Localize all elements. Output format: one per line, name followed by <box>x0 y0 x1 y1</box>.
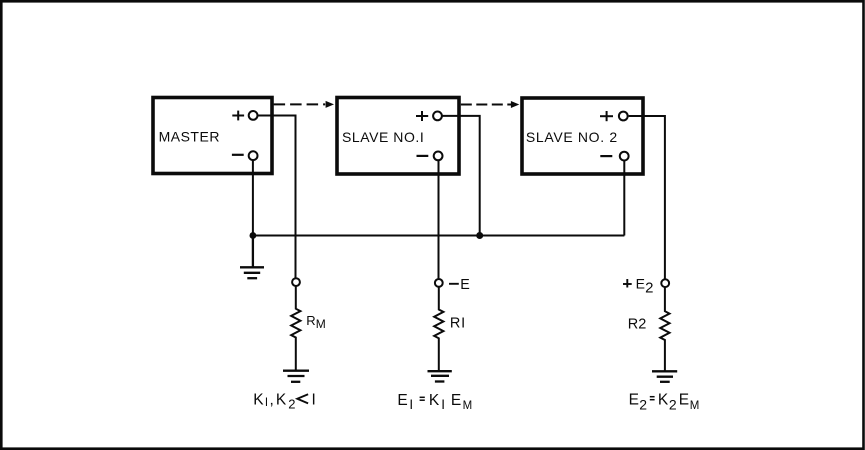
terminal circle SLAVE2 - <box>620 152 629 161</box>
wire SLAVE1 - down to R1 top <box>438 160 440 278</box>
svg-text:2: 2 <box>645 280 653 297</box>
svg-text:MASTER: MASTER <box>159 128 220 144</box>
ground symbol G1 (bus reference) <box>240 236 264 279</box>
terminal circle R2 top (node +E2) <box>661 279 669 287</box>
terminal circle MASTER + <box>249 111 258 120</box>
svg-text:E: E <box>679 391 689 408</box>
minus sign SLAVE2 <box>600 155 612 157</box>
wire SLAVE2 + to R2 top <box>629 116 665 279</box>
box SLAVE NO.1 (U2) <box>337 98 459 175</box>
wire SLAVE1 + down to bus <box>442 116 480 233</box>
svg-text:I: I <box>312 391 316 408</box>
box MASTER <box>153 98 272 174</box>
svg-text:K: K <box>253 391 264 408</box>
svg-text:,: , <box>270 391 274 408</box>
svg-text:M: M <box>316 317 326 331</box>
formula E2 = K2 EM <box>629 391 700 412</box>
svg-text:I: I <box>409 397 413 412</box>
svg-text:SLAVE NO. 2: SLAVE NO. 2 <box>526 129 618 145</box>
junction dot at MASTER - / bus <box>250 232 257 239</box>
terminal circle RM top <box>292 278 300 286</box>
terminal circle SLAVE1 + <box>433 112 442 121</box>
svg-text:I: I <box>441 397 445 412</box>
resistor RM <box>291 286 300 371</box>
svg-text:2: 2 <box>288 396 295 411</box>
svg-text:K: K <box>658 391 669 408</box>
dashed sync link MASTER to SLAVE1 <box>274 103 326 105</box>
terminal circle MASTER - <box>249 151 258 160</box>
node label +E2 plus sign <box>623 279 632 288</box>
formula E1 = K1 EM <box>397 392 472 412</box>
svg-text:I: I <box>265 397 268 409</box>
svg-text:RI: RI <box>450 315 466 331</box>
svg-text:M: M <box>463 400 473 412</box>
dashed sync link SLAVE1 to SLAVE2 <box>461 104 511 106</box>
plus sign SLAVE1 <box>416 111 428 121</box>
wire MASTER - to ground bus <box>252 160 254 235</box>
wire SLAVE2 - down to bus end <box>623 161 625 236</box>
svg-text:R: R <box>306 313 315 328</box>
svg-text:K: K <box>276 391 287 408</box>
minus sign SLAVE1 <box>417 155 429 157</box>
svg-text:2: 2 <box>639 397 647 413</box>
terminal circle SLAVE2 + <box>619 112 628 121</box>
terminal circle R1 top (node -E) <box>435 279 443 287</box>
formula K1,K2&lt;1 <box>253 391 316 411</box>
svg-text:E: E <box>451 392 461 409</box>
svg-text:R2: R2 <box>628 316 647 332</box>
plus sign SLAVE2 <box>600 111 613 121</box>
svg-text:SLAVE NO.I: SLAVE NO.I <box>342 129 424 145</box>
ground bus wire <box>253 235 625 237</box>
ground symbol G3 (R1) <box>428 371 452 381</box>
terminal circle SLAVE1 - <box>434 152 443 161</box>
plus sign MASTER <box>232 111 244 121</box>
ground symbol G4 (R2) <box>652 371 677 382</box>
arrowhead into SLAVE2 <box>511 101 519 108</box>
svg-text:M: M <box>690 400 700 412</box>
resistor R2 <box>660 287 669 371</box>
junction dot at SLAVE1 + / bus <box>476 232 483 239</box>
node label -E <box>449 283 459 285</box>
svg-text:2: 2 <box>669 397 677 413</box>
svg-text:E: E <box>397 392 407 409</box>
arrowhead into SLAVE1 <box>326 101 334 108</box>
ground symbol G2 (RM) <box>283 371 309 382</box>
svg-text:E: E <box>629 391 639 408</box>
svg-text:E: E <box>636 276 645 292</box>
resistor R1 <box>434 287 443 371</box>
svg-text:K: K <box>429 392 440 409</box>
svg-text:E: E <box>460 277 470 293</box>
minus sign MASTER <box>232 154 244 156</box>
wire MASTER + to RM top <box>258 116 296 278</box>
box SLAVE NO.2 (U3) <box>522 98 643 174</box>
